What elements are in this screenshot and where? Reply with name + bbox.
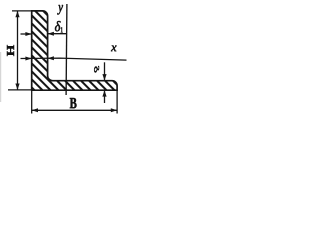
delta1 left arrow — [21, 32, 32, 36]
H label — [7, 45, 14, 56]
H arrow up — [15, 11, 19, 17]
delta label (rotated) — [94, 66, 99, 73]
x axis arrow into left leg face — [25, 57, 31, 61]
x axis label — [111, 46, 117, 52]
B right extension line — [116, 90, 118, 113]
delta down arrow — [102, 62, 106, 80]
angle section outline — [32, 11, 117, 90]
x axis arrow into right leg face — [48, 56, 54, 60]
B dimension line — [32, 109, 117, 111]
delta1 label — [55, 21, 61, 31]
B arrow left — [32, 108, 38, 112]
H extension line top — [12, 10, 32, 12]
H dimension line — [17, 11, 19, 90]
y axis label — [57, 5, 63, 15]
B label — [70, 98, 77, 108]
x axis — [21, 58, 127, 60]
delta1 right arrow and line — [48, 32, 66, 36]
faint scan shadow on left edge — [0, 52, 1, 102]
B arrow right — [111, 108, 117, 112]
y axis — [65, 4, 68, 95]
section hatching — [0, 0, 159, 119]
H arrow down — [15, 84, 19, 90]
H extension line bottom — [8, 89, 32, 91]
B left extension line — [31, 91, 33, 114]
delta up arrow — [102, 90, 106, 103]
